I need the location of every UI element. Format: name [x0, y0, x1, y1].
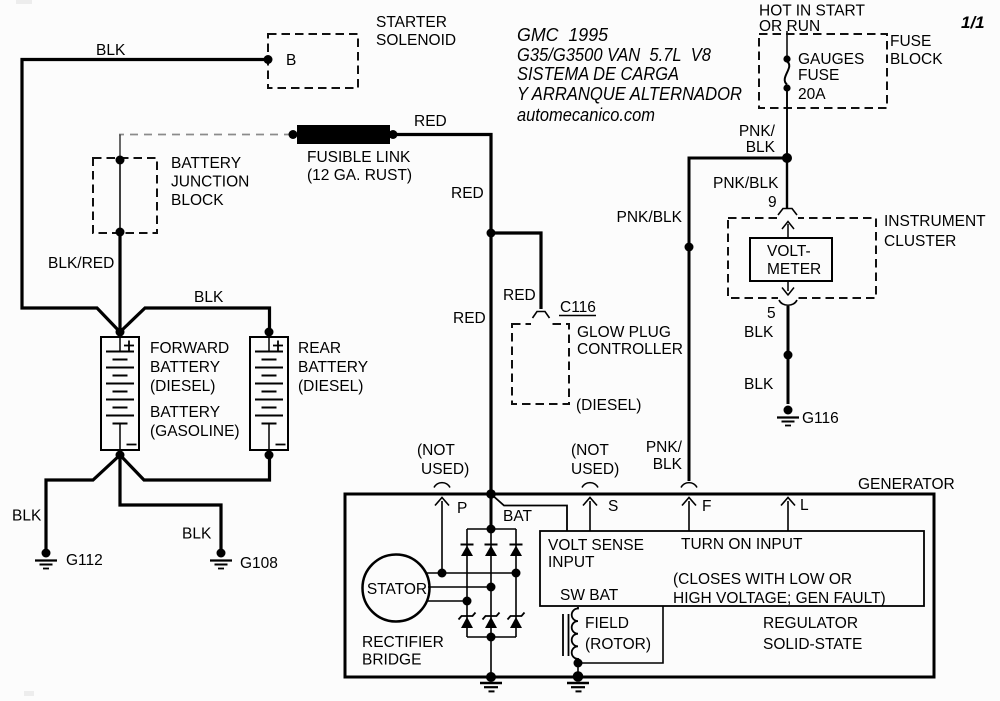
svg-text:SW BAT: SW BAT: [560, 587, 619, 604]
svg-text:BLOCK: BLOCK: [171, 192, 224, 209]
zener diode D4: [459, 613, 476, 629]
arrow terminal S: [583, 498, 597, 532]
node forward battery +: [116, 328, 125, 337]
svg-text:REAR: REAR: [298, 340, 341, 357]
connector S symbol: [582, 483, 598, 488]
stator phase wire 3: [427, 600, 467, 602]
arrow voltmeter up: [782, 222, 794, 239]
scan artifact top-left: [16, 0, 32, 4]
battery forward (B1): [101, 337, 139, 450]
svg-text:(ROTOR): (ROTOR): [585, 636, 651, 653]
connector C116 symbol: [533, 312, 550, 319]
node rear battery +: [265, 328, 274, 337]
node RED junction: [487, 229, 496, 238]
svg-text:BATTERY: BATTERY: [171, 155, 241, 172]
node BLK splice: [784, 351, 793, 360]
wire PNK/BLK fuse to junction: [786, 88, 788, 156]
svg-text:(NOT: (NOT: [417, 442, 455, 459]
node P tap: [438, 569, 447, 578]
svg-text:BLK/RED: BLK/RED: [48, 255, 114, 272]
wire BLK cluster to ground: [787, 306, 790, 404]
svg-text:9: 9: [768, 194, 777, 211]
wire through junction block: [119, 160, 121, 232]
ground rectifier: [480, 683, 502, 691]
dash gap at pin 5: [778, 296, 798, 300]
svg-text:FORWARD: FORWARD: [150, 340, 229, 357]
wire BLK battery tops: [120, 308, 270, 332]
svg-text:BAT: BAT: [503, 508, 533, 525]
rectifier top bus: [467, 528, 516, 530]
node rectifier top bus: [487, 525, 496, 534]
svg-text:USED): USED): [421, 461, 469, 478]
arrow terminal L: [781, 498, 795, 532]
connector pin 5 symbol: [779, 300, 797, 305]
zener diode D6: [508, 613, 525, 629]
svg-text:automecanico.com: automecanico.com: [517, 105, 655, 125]
scan artifact bottom-left: [24, 691, 34, 696]
svg-text:SOLENOID: SOLENOID: [376, 32, 456, 49]
svg-text:METER: METER: [767, 261, 821, 278]
wire field to ground: [577, 663, 579, 677]
svg-text:GMC 1995: GMC 1995: [517, 25, 609, 45]
svg-text:VOLT SENSE: VOLT SENSE: [548, 537, 644, 554]
svg-text:RECTIFIER: RECTIFIER: [362, 634, 444, 651]
ground G112: [35, 549, 57, 569]
glow plug controller box: [512, 324, 569, 404]
svg-text:GENERATOR: GENERATOR: [858, 476, 955, 493]
svg-text:20A: 20A: [798, 86, 826, 103]
node rear battery -: [265, 451, 274, 460]
svg-text:(GASOLINE): (GASOLINE): [150, 423, 240, 440]
stator phase wire 1: [427, 572, 516, 574]
svg-text:FUSE: FUSE: [798, 67, 839, 84]
zener diode D5: [483, 613, 500, 629]
diode D2: [485, 545, 498, 557]
svg-text:FIELD: FIELD: [585, 615, 629, 632]
svg-text:BATTERY: BATTERY: [150, 404, 220, 421]
connector pin 9 symbol: [778, 209, 797, 216]
terminal B node: [264, 55, 273, 64]
svg-text:G108: G108: [240, 555, 278, 572]
node phase 1: [512, 569, 521, 578]
svg-text:BLK: BLK: [746, 139, 776, 156]
svg-text:STATOR: STATOR: [367, 581, 427, 598]
svg-text:VOLT-: VOLT-: [767, 243, 811, 260]
instrument cluster box: [728, 218, 876, 298]
node junction block top: [116, 156, 125, 165]
svg-text:BLK: BLK: [744, 376, 774, 393]
node field ground: [573, 671, 584, 682]
svg-text:USED): USED): [571, 461, 619, 478]
svg-text:FUSIBLE LINK: FUSIBLE LINK: [307, 149, 411, 166]
svg-text:HOT IN START: HOT IN START: [759, 3, 865, 20]
svg-text:JUNCTION: JUNCTION: [171, 174, 249, 191]
svg-text:(NOT: (NOT: [571, 442, 609, 459]
fuse block box: [759, 34, 887, 108]
svg-text:OR RUN: OR RUN: [759, 18, 820, 35]
svg-text:RED: RED: [451, 185, 484, 202]
arrow voltmeter down: [782, 281, 794, 295]
svg-text:(CLOSES WITH LOW OR: (CLOSES WITH LOW OR: [673, 571, 852, 588]
node rectifier ground: [486, 672, 496, 682]
svg-text:(DIESEL): (DIESEL): [150, 378, 215, 395]
voltmeter U1 box: [750, 238, 832, 281]
svg-text:(DIESEL): (DIESEL): [298, 378, 363, 395]
svg-text:L: L: [800, 497, 809, 514]
svg-text:CONTROLLER: CONTROLLER: [577, 341, 683, 358]
svg-text:BLK: BLK: [96, 42, 126, 59]
svg-text:TURN ON INPUT: TURN ON INPUT: [681, 536, 803, 553]
ground G108: [210, 549, 232, 569]
svg-text:RED: RED: [414, 113, 447, 130]
field rotor coil L1: [563, 607, 578, 663]
svg-text:PNK/BLK: PNK/BLK: [617, 209, 683, 226]
svg-text:(DIESEL): (DIESEL): [576, 397, 641, 414]
svg-text:STARTER: STARTER: [376, 14, 447, 31]
svg-text:BLK: BLK: [744, 324, 774, 341]
dash gap at pin 9: [778, 216, 798, 220]
svg-text:(12 GA. RUST): (12 GA. RUST): [307, 167, 412, 184]
svg-text:GLOW PLUG: GLOW PLUG: [577, 324, 671, 341]
svg-text:CLUSTER: CLUSTER: [884, 233, 956, 250]
svg-text:SISTEMA DE CARGA: SISTEMA DE CARGA: [517, 64, 679, 84]
arrow terminal F: [682, 498, 696, 532]
svg-text:P: P: [457, 500, 467, 517]
wire into fuse block: [786, 31, 788, 57]
svg-text:BLOCK: BLOCK: [890, 51, 943, 68]
node generator BAT input: [486, 489, 496, 499]
wire PNK/BLK to instrument cluster pin 9: [786, 158, 788, 208]
diode D3: [510, 545, 523, 557]
wire BLK to G112: [46, 455, 120, 551]
svg-text:5: 5: [767, 305, 776, 322]
svg-text:BLK: BLK: [12, 508, 42, 525]
wire BLK battery bottoms: [120, 455, 270, 480]
ground field: [567, 683, 589, 691]
fusible link body: [297, 125, 390, 144]
rectifier column 1: [466, 529, 468, 637]
svg-text:PNK/BLK: PNK/BLK: [713, 175, 779, 192]
svg-text:1/1: 1/1: [961, 13, 985, 32]
wire RED fusible link to generator: [393, 135, 491, 495]
stator winding: [363, 555, 430, 622]
rectifier column 3: [515, 529, 517, 637]
node phase 2: [487, 583, 496, 592]
wire BAT vertical into rectifier: [490, 494, 493, 529]
node on PNK/BLK branch: [685, 243, 694, 252]
rectifier bottom bus: [467, 636, 516, 638]
svg-text:INPUT: INPUT: [548, 554, 595, 571]
dash gap at C116: [531, 322, 551, 327]
wire RED branch to glow plug controller: [491, 233, 541, 309]
wire BLK from starter solenoid B to batteries (left loop): [22, 60, 268, 333]
svg-text:C116: C116: [560, 299, 596, 316]
fusible link left node: [289, 130, 298, 139]
node rectifier bottom bus: [487, 633, 496, 642]
svg-text:RED: RED: [453, 310, 486, 327]
svg-text:GAUGES: GAUGES: [798, 51, 864, 68]
svg-text:Y ARRANQUE ALTERNADOR: Y ARRANQUE ALTERNADOR: [517, 84, 742, 104]
wire BAT to regulator: [491, 494, 567, 531]
svg-text:FUSE: FUSE: [890, 33, 931, 50]
node PNK/BLK junction: [782, 153, 792, 163]
svg-text:BATTERY: BATTERY: [150, 359, 220, 376]
wire BLK/RED junction block to forward battery: [118, 232, 121, 332]
battery junction block box: [93, 158, 157, 233]
node field bottom: [574, 659, 583, 668]
regulator box: [540, 531, 924, 606]
svg-text:BLK: BLK: [182, 526, 212, 543]
connector F symbol: [681, 483, 697, 488]
starter solenoid box: [268, 34, 358, 88]
svg-text:G116: G116: [802, 410, 839, 427]
underline C116: [559, 315, 596, 317]
diode D1: [461, 545, 474, 557]
wire junction block upper lead: [119, 135, 121, 161]
wire BLK to G108: [120, 455, 221, 551]
generator box: [345, 494, 934, 677]
connector P symbol: [434, 483, 450, 488]
svg-text:RED: RED: [503, 287, 536, 304]
arrow terminal P: [435, 498, 449, 574]
svg-text:PNK/: PNK/: [646, 439, 683, 456]
node phase 3: [463, 597, 472, 606]
battery rear (B2): [250, 337, 288, 450]
title block: [517, 25, 742, 125]
svg-text:HIGH VOLTAGE; GEN FAULT): HIGH VOLTAGE; GEN FAULT): [673, 590, 886, 607]
svg-text:BLK: BLK: [194, 289, 224, 306]
svg-text:BRIDGE: BRIDGE: [362, 652, 421, 669]
svg-text:G112: G112: [66, 552, 103, 569]
svg-text:INSTRUMENT: INSTRUMENT: [884, 213, 986, 230]
svg-text:BATTERY: BATTERY: [298, 359, 368, 376]
rectifier column 2: [490, 529, 492, 677]
svg-text:B: B: [286, 52, 296, 69]
ground G116: [777, 406, 799, 426]
svg-text:BLK: BLK: [653, 456, 683, 473]
wire field return to regulator: [578, 606, 663, 663]
node forward battery -: [116, 451, 125, 460]
svg-text:PNK/: PNK/: [739, 123, 776, 140]
node junction block bottom: [116, 228, 125, 237]
fusible link right node: [389, 130, 398, 139]
wire PNK/BLK junction to F terminal branch: [689, 158, 787, 481]
dashed wire battery junction block to fusible link: [119, 134, 292, 136]
svg-text:REGULATOR: REGULATOR: [763, 615, 858, 632]
svg-text:S: S: [608, 498, 618, 515]
svg-text:G35/G3500 VAN 5.7L V8: G35/G3500 VAN 5.7L V8: [517, 45, 711, 65]
fuse GAUGES FUSE 20A: [783, 55, 790, 91]
stator phase wire 2: [428, 586, 491, 588]
svg-text:SOLID-STATE: SOLID-STATE: [763, 636, 862, 653]
svg-text:F: F: [702, 498, 711, 515]
